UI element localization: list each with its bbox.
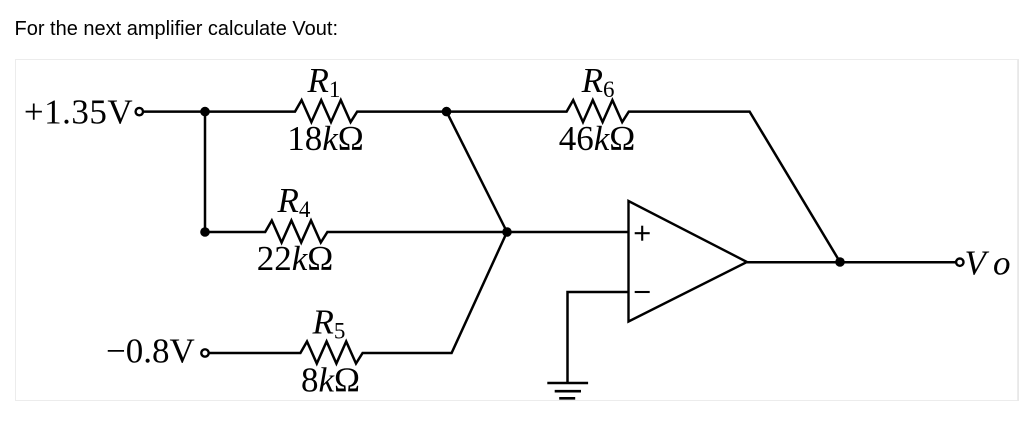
- svg-text:22kΩ: 22kΩ: [257, 239, 334, 278]
- svg-text:8kΩ: 8kΩ: [301, 361, 360, 400]
- svg-text:V: V: [965, 244, 990, 283]
- svg-text:For the next amplifier calcula: For the next amplifier calculate Vout:: [15, 18, 339, 40]
- svg-text:R4: R4: [277, 181, 311, 222]
- svg-text:R1: R1: [307, 61, 341, 102]
- svg-text:o: o: [993, 244, 1011, 283]
- svg-text:−0.8V: −0.8V: [106, 332, 195, 371]
- svg-text:18kΩ: 18kΩ: [287, 119, 364, 158]
- svg-text:+1.35V: +1.35V: [24, 93, 133, 132]
- svg-text:46kΩ: 46kΩ: [559, 119, 636, 158]
- svg-text:R6: R6: [581, 61, 615, 102]
- svg-text:R5: R5: [312, 303, 346, 344]
